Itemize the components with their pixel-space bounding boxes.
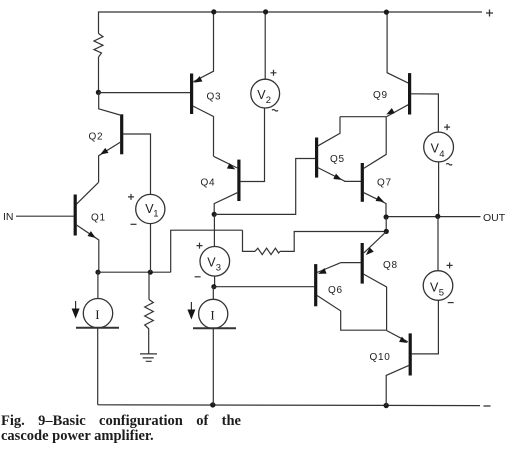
svg-text:OUT: OUT	[483, 212, 506, 224]
node C (V1 bottom / R to ground)	[148, 270, 153, 275]
+ mark V1	[128, 194, 134, 200]
wire Q3 emitter to rail	[193, 12, 214, 82]
voltage source V3	[200, 246, 230, 276]
wire left column from rail to resistor	[98, 12, 101, 34]
wire Q7 emitter	[363, 192, 386, 217]
svg-text:V: V	[431, 142, 440, 156]
arrow I1	[75, 301, 77, 310]
bar I1	[76, 327, 119, 329]
node OUT V4/V5	[435, 214, 440, 219]
wire resistor to node A	[98, 57, 100, 92]
wire node D to Q5 base	[214, 159, 315, 215]
svg-text:Q7: Q7	[377, 177, 392, 188]
svg-text:5: 5	[439, 288, 444, 299]
caption figure text	[1, 414, 241, 444]
wire feedback detour down	[243, 230, 256, 251]
wire Q5 emitter to Q7 base	[318, 168, 361, 182]
arrow Q10 emitter	[399, 337, 409, 346]
wire Q7 collector	[364, 117, 387, 169]
+ mark V2	[271, 70, 277, 76]
transistor Q6 bar	[314, 264, 317, 306]
svg-text:Q5: Q5	[330, 154, 345, 165]
wire resistor to ground	[148, 329, 150, 354]
node E (V3 / I2 / Q6 base)	[211, 284, 216, 289]
wire node F (Q5 coll / Q9 emit / Q7 coll)	[340, 116, 387, 118]
svg-text:Q1: Q1	[91, 213, 106, 224]
transistor Q1 bar	[74, 195, 77, 236]
bar I2	[193, 327, 236, 329]
wire IN to Q1 base	[16, 215, 74, 217]
+ mark V4	[444, 124, 450, 130]
wire node C down to resistor	[148, 272, 150, 299]
arrow Q3 emitter	[193, 76, 203, 85]
wire V2 top to rail	[264, 12, 266, 79]
arrow Q6 emitter	[317, 268, 327, 277]
transistor Q3 bar	[190, 74, 193, 115]
transistor Q4 bar	[237, 160, 240, 201]
resistor R (top left)	[94, 34, 103, 58]
arrow Q4 emitter	[227, 163, 237, 172]
node bottom rail Q10	[384, 403, 389, 408]
svg-text:Q3: Q3	[207, 91, 222, 102]
arrow Q9 emitter	[385, 108, 395, 117]
node D (Q4 collector / V3 / Q5 base link)	[212, 212, 217, 217]
voltage source V4	[424, 132, 454, 162]
current source I2	[199, 299, 228, 328]
transistor Q9 bar	[408, 73, 411, 114]
svg-text:Q2: Q2	[89, 132, 104, 143]
svg-text:4: 4	[439, 149, 444, 160]
svg-text:I: I	[95, 307, 99, 322]
wire Q10 collector	[386, 365, 409, 405]
wire V1 bottom	[150, 224, 152, 272]
wire Q1 collector	[76, 182, 99, 204]
wire Q9 collector to rail	[387, 12, 408, 83]
svg-text:Q4: Q4	[201, 177, 216, 188]
node B (Q1 emitter / I1 / feedback)	[95, 270, 100, 275]
wire Q6 base	[214, 286, 314, 288]
wire Q10 base to V5	[411, 300, 438, 354]
wire Q10 emitter	[386, 330, 408, 341]
wire Q4 emitter	[214, 156, 238, 168]
transistor Q10 bar	[409, 333, 412, 375]
wire Q6 collector	[317, 295, 387, 330]
wire Q1 emitter	[76, 225, 99, 273]
node A (Q3 base / Q2 collector / resistor)	[96, 90, 101, 95]
wire Q2 emitter	[99, 142, 121, 182]
voltage source V2	[251, 79, 280, 108]
+ mark V3	[197, 243, 203, 249]
wire V3 bottom	[214, 276, 216, 287]
wire V5 top to OUT node	[437, 217, 439, 271]
transistor Q2 bar	[120, 114, 123, 154]
svg-text:Q9: Q9	[373, 90, 388, 101]
wire node D to V3	[213, 214, 215, 246]
wire node B to node C	[98, 271, 171, 273]
node G (Q8 emitter / feedback)	[384, 229, 389, 234]
~ mark V4	[446, 164, 452, 166]
wire Q4 collector	[214, 193, 237, 215]
+ label top right rail	[486, 10, 493, 17]
arrow Q5 emitter	[333, 174, 343, 183]
arrow I2	[190, 302, 192, 311]
svg-text:3: 3	[216, 263, 221, 274]
wire feedback detour up	[280, 232, 386, 252]
- label bottom right rail	[484, 405, 491, 407]
svg-text:2: 2	[266, 95, 271, 106]
wire V4 bottom to OUT node	[438, 162, 440, 216]
wire Q5 collector	[318, 117, 340, 146]
wire Q3 base	[98, 92, 190, 94]
wire top positive rail	[99, 11, 482, 13]
transistor Q8 bar	[361, 243, 364, 284]
node top rail Q3	[211, 9, 216, 14]
arrow Q2 emitter	[99, 148, 109, 157]
- mark V5	[448, 302, 454, 304]
arrow Q1 emitter	[88, 231, 98, 240]
wire Q2 collector	[99, 92, 120, 115]
arrow Q7 emitter	[376, 196, 386, 205]
wire bottom negative rail	[98, 404, 480, 407]
current source I1	[83, 299, 112, 328]
transistor Q5 bar	[315, 138, 318, 178]
svg-text:V: V	[430, 281, 439, 295]
transistor Q7 bar	[361, 163, 364, 202]
node OUT (Q7 emitter)	[384, 214, 389, 219]
- mark V3	[195, 276, 201, 278]
wire Q8 collector	[363, 274, 386, 330]
node top rail V2	[263, 9, 268, 14]
svg-text:I: I	[210, 308, 214, 323]
- mark V1	[131, 223, 137, 225]
node top rail Q9	[384, 10, 389, 15]
wire Q3 collector	[193, 106, 214, 156]
svg-text:Q6: Q6	[328, 285, 343, 296]
wire OUT line	[386, 216, 480, 218]
svg-text:IN: IN	[3, 211, 14, 223]
~ mark V2	[272, 110, 278, 112]
wire Q6 emitter	[317, 263, 340, 273]
ground	[140, 354, 157, 361]
wire Q9 emitter	[387, 105, 409, 117]
svg-text:1: 1	[153, 209, 158, 220]
voltage source V5	[423, 271, 453, 301]
wire feedback riser left	[171, 230, 243, 272]
svg-text:Q8: Q8	[383, 260, 398, 271]
wire Q9 base to V4	[411, 94, 439, 133]
node bottom rail I2	[210, 402, 215, 407]
voltage source V1	[136, 194, 165, 223]
wire OUT node to node G	[385, 217, 387, 231]
wire Q2 base to V1	[123, 134, 151, 194]
wire node E to I2	[212, 287, 214, 300]
+ mark V5	[447, 262, 453, 268]
wire I2 to bottom rail	[212, 328, 214, 405]
wire node B to current source I1	[97, 272, 99, 298]
wire Q4 base to V2	[240, 108, 264, 181]
resistor R2 (to ground)	[145, 300, 154, 330]
arrow Q8 emitter	[364, 247, 374, 257]
wire I1 to bottom rail	[97, 328, 99, 405]
svg-text:Q10: Q10	[370, 352, 391, 363]
wire Q8 base from Q6 emitter	[340, 262, 361, 264]
resistor R3 (feedback)	[255, 248, 280, 254]
wire Q8 emitter	[364, 232, 386, 253]
